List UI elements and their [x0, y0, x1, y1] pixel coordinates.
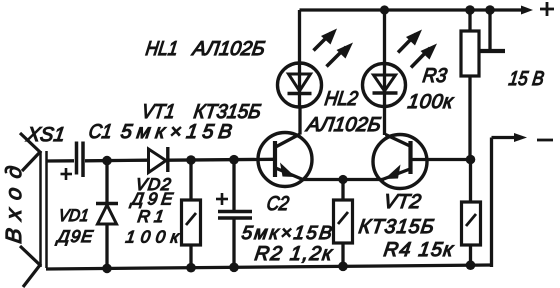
- label VT1: [140, 101, 262, 123]
- svg-text:VT1: VT1: [140, 101, 176, 123]
- terminal minus arrow: [492, 133, 554, 142]
- wire VT2 base to R3 node: [411, 158, 472, 161]
- svg-text:R2 1,2к: R2 1,2к: [253, 243, 335, 265]
- node VD1 top junction: [102, 156, 112, 166]
- node C2 top junction: [229, 155, 239, 165]
- resistor R3: [461, 31, 479, 76]
- wire node to R4: [469, 160, 472, 202]
- node R2 emitter junction: [338, 175, 347, 184]
- svg-text:R1: R1: [136, 207, 165, 226]
- resistor R2: [334, 200, 353, 243]
- svg-text:XS1: XS1: [24, 124, 66, 146]
- svg-text:Д9Е: Д9Е: [54, 227, 94, 246]
- label C1 value: [87, 121, 233, 143]
- wire VD2 to VT1 base: [168, 158, 274, 162]
- node HL2 rail junction: [380, 5, 389, 14]
- LED HL1: [278, 29, 354, 108]
- svg-text:АЛ102Б: АЛ102Б: [190, 38, 266, 60]
- svg-text:КТ315Б: КТ315Б: [192, 101, 262, 123]
- wire VT1 collector: [298, 107, 301, 135]
- transistor VT2: [373, 135, 427, 189]
- label VT2: [357, 191, 435, 238]
- svg-text:VT2: VT2: [382, 191, 422, 213]
- wire VD1 branch lower: [105, 224, 108, 269]
- wire R4 lower: [469, 245, 472, 267]
- chassis ground: [480, 10, 505, 51]
- svg-text:Вход: Вход: [1, 164, 26, 244]
- wire VD1 branch upper: [105, 161, 108, 205]
- terminal +15V arrow: [510, 2, 554, 16]
- wire emitter bus: [302, 178, 384, 181]
- node R3 rail junction: [465, 5, 475, 15]
- wire input top: [46, 159, 74, 162]
- diode VD2: [149, 147, 168, 173]
- node R2 bottom junction: [338, 262, 348, 272]
- resistor R4: [462, 202, 481, 245]
- LED HL2: [363, 30, 438, 107]
- svg-text:С1: С1: [87, 121, 113, 143]
- wire R1 lower: [189, 245, 192, 268]
- connector XS1: [20, 133, 47, 287]
- wire R2 upper: [341, 180, 344, 201]
- svg-text:КТ315Б: КТ315Б: [357, 216, 435, 238]
- label R3: [406, 65, 456, 113]
- node VD1 bottom junction: [102, 264, 112, 274]
- wire minus terminal down: [490, 138, 493, 268]
- label R1: [124, 207, 181, 246]
- svg-text:R4 15к: R4 15к: [382, 239, 456, 261]
- label C2: [240, 193, 333, 244]
- svg-text:15 В: 15 В: [507, 68, 545, 90]
- svg-text:5мк×15В: 5мк×15В: [119, 121, 233, 143]
- svg-text:VD1: VD1: [57, 206, 90, 225]
- svg-text:100к: 100к: [124, 228, 181, 247]
- wire HL2 cathode down: [383, 106, 386, 135]
- node R1 top junction: [186, 155, 196, 165]
- svg-text:Д9Е: Д9Е: [128, 190, 174, 209]
- node R4 bottom junction: [466, 260, 476, 270]
- svg-text:100к: 100к: [406, 91, 456, 113]
- label VD1: [54, 206, 94, 246]
- resistor R1: [182, 200, 201, 245]
- label HL1: [144, 38, 266, 60]
- svg-text:HL2: HL2: [323, 88, 359, 110]
- wire R1 upper: [189, 161, 192, 201]
- wire bottom rail: [46, 265, 492, 269]
- svg-text:HL1: HL1: [144, 38, 179, 60]
- wire HL2 anode up: [383, 10, 386, 64]
- label VD2: [128, 175, 174, 208]
- transistor VT1: [258, 133, 312, 187]
- wire C2 lower: [232, 218, 235, 268]
- wire R2 lower: [341, 243, 344, 267]
- capacitor C1: [61, 142, 84, 181]
- wire C2 upper: [232, 161, 235, 212]
- node chassis rail junction: [485, 5, 495, 15]
- node VT2 base junction: [466, 155, 476, 165]
- svg-text:АЛ102Б: АЛ102Б: [304, 114, 382, 136]
- capacitor C2: [216, 193, 252, 218]
- wire R3 to VT2 base node: [468, 76, 471, 160]
- wire R3 upper: [468, 10, 471, 31]
- node R1 bottom junction: [186, 263, 196, 273]
- svg-text:5мк×15В: 5мк×15В: [240, 223, 333, 244]
- node C2 bottom junction: [229, 263, 239, 273]
- svg-text:С2: С2: [265, 193, 290, 215]
- wire top rail: [300, 8, 511, 11]
- wire C1 to VD2: [85, 159, 148, 163]
- label HL2: [304, 88, 382, 136]
- svg-text:R3: R3: [421, 65, 448, 87]
- wire HL1 anode up: [298, 10, 301, 63]
- diode VD1: [96, 204, 118, 225]
